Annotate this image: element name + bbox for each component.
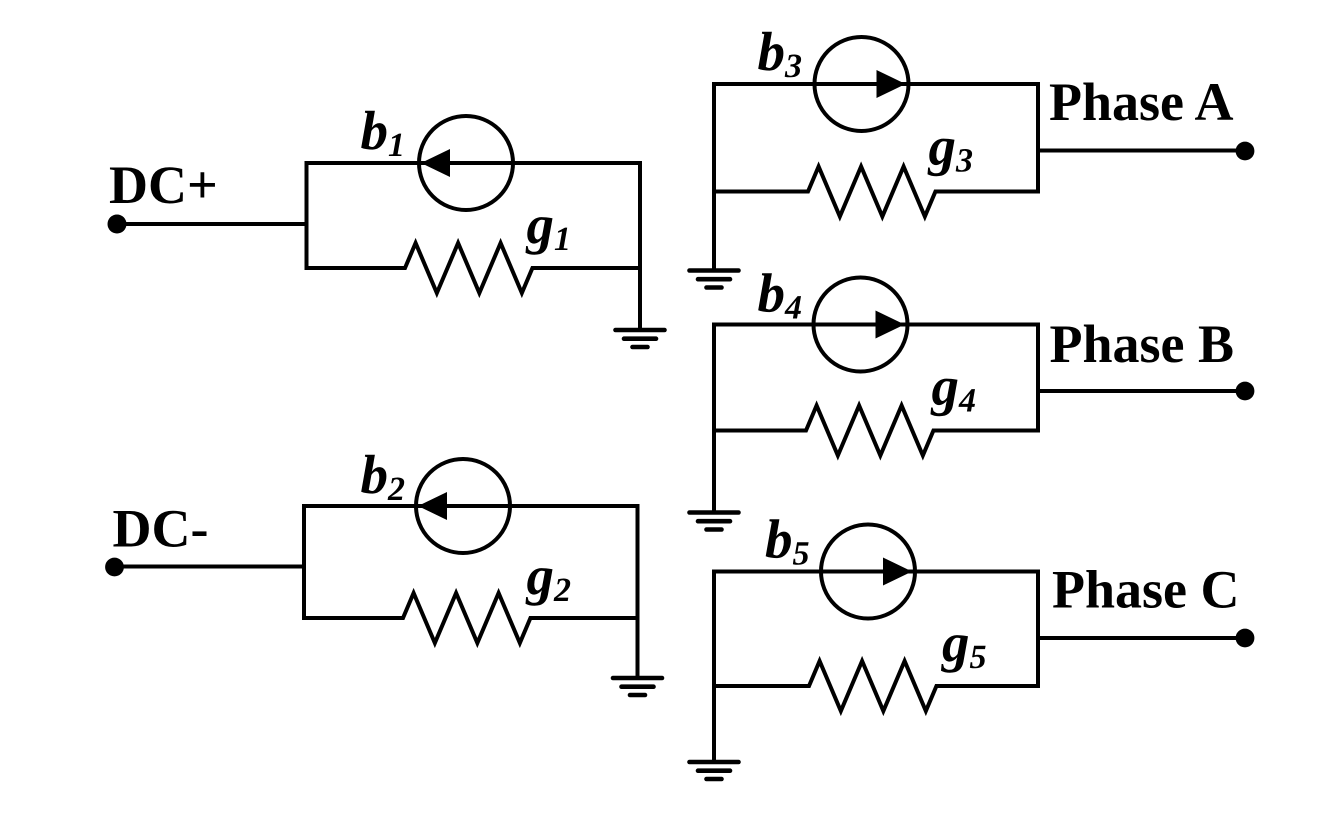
svg-text:DC+: DC+ bbox=[109, 155, 218, 215]
value label g4 bbox=[931, 379, 976, 417]
wire right rail down to ground bbox=[636, 504, 640, 678]
wire Phase C output bbox=[1038, 636, 1240, 640]
ground (Phase C) bbox=[690, 762, 739, 779]
resistor g4 and bottom branch wire bbox=[712, 406, 1038, 456]
svg-text:DC-: DC- bbox=[113, 499, 209, 559]
wire top branch through b3 bbox=[712, 82, 1038, 86]
node DC- terminal dot bbox=[105, 558, 124, 577]
value label b5 bbox=[766, 519, 809, 565]
wire right rail Phase A bbox=[1036, 82, 1040, 194]
resistor g3 and bottom branch wire bbox=[712, 167, 1038, 217]
wire DC+ to left rail bbox=[117, 222, 307, 226]
svg-text:Phase A: Phase A bbox=[1049, 72, 1234, 132]
wire top branch through b5 bbox=[712, 570, 1038, 574]
wire right rail Phase C bbox=[1036, 570, 1040, 689]
ground (circuit 2) bbox=[613, 678, 662, 695]
current source b5 bbox=[821, 525, 915, 619]
value label g2 bbox=[526, 568, 571, 606]
svg-text:Phase C: Phase C bbox=[1052, 560, 1240, 620]
wire left rail b4/g4 down to ground bbox=[712, 323, 716, 513]
resistor g5 and bottom branch wire bbox=[712, 661, 1038, 711]
resistor g1 and bottom branch wire bbox=[305, 243, 643, 293]
value label b1 bbox=[361, 111, 401, 156]
wire left rail b3/g3 down to ground bbox=[712, 82, 716, 271]
wire left rail b2/g2 bbox=[302, 504, 306, 618]
wire top branch through b2 bbox=[302, 504, 638, 508]
svg-text:Phase B: Phase B bbox=[1050, 314, 1235, 374]
ground (circuit 1) bbox=[616, 330, 665, 347]
wire top branch through b4 bbox=[712, 323, 1038, 327]
ground (Phase A) bbox=[690, 271, 739, 288]
value label g3 bbox=[928, 139, 973, 177]
node Phase A terminal dot bbox=[1236, 142, 1255, 161]
resistor g2 and bottom branch wire bbox=[302, 593, 640, 643]
wire top branch through b1 bbox=[305, 161, 641, 165]
wire right rail down to ground bbox=[638, 161, 642, 330]
node DC+ terminal dot bbox=[108, 215, 127, 234]
value label b4 bbox=[758, 273, 801, 318]
wire Phase B output bbox=[1038, 389, 1240, 393]
value label g5 bbox=[941, 635, 986, 673]
node Phase C terminal dot bbox=[1236, 629, 1255, 648]
wire left rail b5/g5 down to ground bbox=[712, 570, 716, 763]
current source b1 bbox=[419, 116, 513, 210]
ground (Phase B) bbox=[690, 513, 739, 530]
wire right rail Phase B bbox=[1036, 323, 1040, 433]
current source b2 bbox=[416, 459, 510, 553]
node Phase B terminal dot bbox=[1236, 382, 1255, 401]
wire Phase A output bbox=[1038, 149, 1240, 153]
value label b2 bbox=[361, 455, 404, 500]
value label g1 bbox=[526, 217, 568, 255]
value label b3 bbox=[758, 32, 801, 78]
current source b3 bbox=[815, 37, 909, 131]
wire left rail b1/g1 bbox=[305, 161, 309, 268]
current source b4 bbox=[814, 278, 908, 372]
wire DC- to left rail bbox=[115, 565, 305, 569]
